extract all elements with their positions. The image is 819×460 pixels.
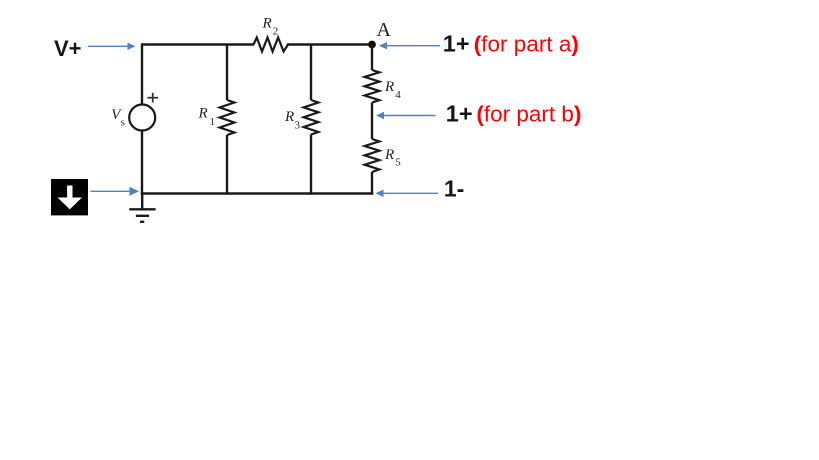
wire R1 branch upper [226,45,228,101]
resistor R5 [365,139,380,172]
svg-text:R: R [262,15,272,31]
svg-text:(for part b): (for part b) [476,101,581,126]
arrow to node A [379,42,440,49]
label R5 [384,147,401,169]
svg-text:4: 4 [395,89,401,101]
svg-text:A: A [377,19,392,41]
label R3 [284,109,301,132]
svg-text:2: 2 [273,26,279,38]
resistor R4 [365,70,380,103]
arrow to bottom rail right [376,190,439,197]
svg-text:1: 1 [210,116,216,128]
wire top rail left segment [142,43,254,45]
arrow from icon to ground node [90,188,138,195]
plus polarity mark [147,93,158,103]
wire left branch lower [141,131,143,195]
label Vs [111,107,125,129]
svg-text:(for part a): (for part a) [474,32,579,57]
download icon white arrow [58,186,83,210]
resistor R1 [220,100,235,135]
wire left branch upper [141,43,143,104]
svg-text:R: R [284,109,294,125]
resistor R2 [254,38,289,52]
label 1+ (for part a) [443,31,579,57]
svg-text:5: 5 [395,157,401,169]
svg-text:R: R [384,79,394,95]
label 1+ (for part b) [446,100,582,126]
node A [368,41,376,49]
wire R3 branch lower [310,135,312,195]
svg-text:s: s [121,117,125,129]
wire between R4 and R5 [371,103,373,140]
voltage source Vs [129,105,155,131]
label R4 [384,79,401,101]
resistor R3 [304,100,319,135]
svg-text:1+: 1+ [446,100,473,126]
svg-text:V+: V+ [54,36,82,61]
svg-text:1+: 1+ [443,31,470,57]
wire top rail right segment [287,43,372,45]
svg-text:R: R [198,106,208,122]
svg-text:3: 3 [295,120,301,132]
svg-text:R: R [384,147,394,163]
svg-text:1-: 1- [444,175,464,201]
label R2 [262,15,279,37]
wire R5 to bottom rail [371,172,373,195]
wire node A to R4 [371,45,373,71]
wire R3 branch upper [310,45,312,101]
download icon black square [51,179,88,215]
arrow V+ to top rail [88,43,136,50]
arrow to part b node [376,112,436,119]
ground [129,194,155,222]
bottom rail wire [141,192,373,194]
label R1 [198,106,216,129]
wire R1 branch lower [226,135,228,195]
